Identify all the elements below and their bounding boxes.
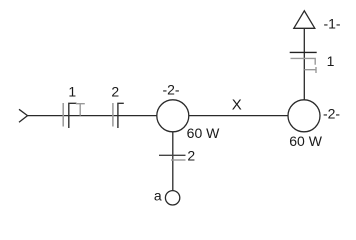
wire: feed to left lamp [28, 115, 158, 117]
svg-text:-2-: -2- [323, 105, 340, 121]
right switch black bar [290, 51, 317, 53]
antenna triangle [294, 11, 315, 29]
wire: right lamp up [303, 28, 305, 100]
wire: left lamp to right lamp [189, 115, 289, 117]
svg-text:2: 2 [111, 83, 119, 99]
bottom switch gray bar [171, 159, 186, 161]
svg-text:1: 1 [327, 53, 335, 69]
right switch gray tee [304, 67, 316, 73]
switch S1 gray tee [76, 104, 85, 116]
feed arrow [19, 109, 28, 122]
wire: left lamp down [172, 132, 174, 191]
svg-text:2: 2 [187, 148, 195, 164]
switch S1 gray bar [62, 103, 64, 127]
switch S2 gray bar [112, 103, 114, 127]
svg-text:60 W: 60 W [187, 125, 220, 141]
right switch gray hook [291, 58, 316, 64]
lamp E1 (left) [157, 100, 189, 132]
bottom switch dark bar [159, 154, 186, 156]
svg-text:X: X [232, 97, 242, 114]
lamp E2 (right) [288, 100, 320, 132]
svg-text:-1-: -1- [323, 15, 340, 31]
svg-text:-2-: -2- [162, 82, 179, 98]
svg-text:60 W: 60 W [289, 133, 322, 149]
svg-text:1: 1 [68, 83, 76, 99]
switch S2 black hook [118, 103, 124, 128]
svg-text:a: a [154, 188, 162, 204]
terminal a circle [165, 191, 179, 205]
switch S1 black hook [69, 103, 77, 128]
